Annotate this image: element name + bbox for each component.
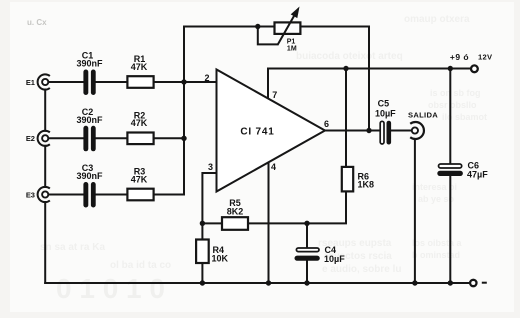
resistor R4	[196, 240, 209, 264]
svg-text:los oibsta a: los oibsta a	[412, 238, 463, 248]
svg-text:omaup otxera: omaup otxera	[404, 14, 470, 25]
wire E2 shell to E3 shell	[44, 146, 46, 187]
svg-text:+9 ó: +9 ó	[450, 52, 469, 62]
svg-text:390nF: 390nF	[76, 115, 103, 125]
wire SALIDA jack shell to ground rail	[414, 139, 416, 283]
positive supply terminal	[471, 65, 478, 72]
svg-text:390nF: 390nF	[76, 59, 103, 69]
wire ground rail	[45, 282, 470, 284]
svg-text:3: 3	[208, 162, 213, 172]
svg-text:E3: E3	[26, 190, 35, 199]
svg-text:47K: 47K	[131, 118, 148, 128]
wire R4 top lead	[201, 223, 203, 239]
svg-text:P1: P1	[287, 38, 296, 45]
wire feedback top rail to P1	[184, 26, 275, 28]
junction node B (R5/R6/C4)	[304, 221, 309, 226]
wire E3 shell down to ground rail	[44, 202, 46, 283]
wire C4 top lead	[306, 223, 308, 248]
wire E1 jack to C1	[49, 81, 83, 83]
wire supply rail branch down to C6	[449, 69, 451, 165]
wire R5 to node B	[249, 222, 307, 224]
capacitor C3	[83, 182, 95, 208]
wire C6 bottom lead to ground rail	[449, 176, 451, 283]
svg-text:ab ye so: ab ye so	[418, 194, 455, 204]
svg-text:47µF: 47µF	[467, 169, 488, 179]
wire C1 to R1	[96, 81, 127, 83]
wire P1 wiper loop	[258, 27, 278, 45]
wire R3 to summing node	[154, 194, 184, 196]
svg-text:2: 2	[204, 73, 209, 83]
wire R1 to summing node	[154, 81, 184, 83]
junction supply-R6	[343, 66, 348, 71]
svg-text:E2: E2	[26, 134, 35, 143]
wire E3 jack to C3	[49, 194, 83, 196]
svg-text:ilo sbamot: ilo sbamot	[442, 112, 487, 122]
potentiometer P1	[275, 7, 301, 46]
wire C5 to SALIDA jack	[391, 130, 411, 132]
svg-text:8K2: 8K2	[227, 207, 244, 217]
svg-text:sn sa at ra Ka: sn sa at ra Ka	[40, 242, 105, 253]
wire summing node vertical (inverting input bus)	[183, 27, 185, 195]
junction C6-ground	[448, 280, 453, 285]
junction supply-C6	[448, 66, 453, 71]
svg-text:1M: 1M	[287, 46, 297, 53]
svg-text:b ominstad: b ominstad	[412, 250, 460, 260]
svg-text:47K: 47K	[131, 62, 148, 72]
junction node A (pin3/R4/R5)	[200, 221, 205, 226]
wire E2 jack to C2	[49, 137, 83, 139]
capacitor C2	[83, 126, 95, 152]
connector E1 (input jack)	[38, 74, 50, 89]
wire P1 to right feedback riser	[300, 26, 369, 28]
resistor R6	[342, 167, 353, 192]
resistor R1	[127, 76, 153, 88]
connector E2 (input jack)	[38, 131, 50, 146]
svg-text:10µF: 10µF	[375, 109, 396, 119]
junction P1 wiper/left terminal	[255, 24, 260, 29]
wire pin 7 to supply rail	[267, 69, 269, 99]
capacitor C1	[83, 70, 95, 96]
svg-text:E1: E1	[26, 78, 35, 87]
connector E3 (input jack)	[38, 187, 50, 202]
label minus	[482, 282, 487, 284]
wire op-amp output pin 6 to C5	[325, 130, 380, 132]
wire feedback riser down to output	[368, 27, 370, 131]
wire pin 2 input	[184, 81, 217, 83]
junction C4-ground	[304, 280, 309, 285]
capacitor C5 (electrolytic output coupling)	[380, 121, 391, 145]
capacitor C4 (electrolytic)	[295, 248, 320, 261]
wire R2 to summing node	[154, 137, 184, 139]
svg-text:0 1 0 1 0: 0 1 0 1 0	[56, 273, 165, 304]
svg-text:47K: 47K	[131, 174, 148, 184]
svg-text:obsr obsllo: obsr obsllo	[428, 100, 477, 110]
negative supply terminal	[470, 280, 476, 286]
junction summing node pin2	[181, 79, 186, 84]
svg-text:10µF: 10µF	[324, 254, 345, 264]
junction summing node R2	[181, 136, 186, 141]
resistor R5	[222, 217, 248, 230]
wire C2 to R2	[96, 137, 127, 139]
wire C4 bottom lead to ground rail	[306, 261, 308, 284]
svg-text:C5: C5	[378, 98, 390, 108]
resistor R3	[127, 189, 153, 201]
wire node A to R5	[202, 222, 221, 224]
wire positive supply rail	[268, 68, 471, 70]
op-amp U1 CI 741	[217, 70, 326, 192]
capacitor C6 (electrolytic supply filter)	[437, 164, 463, 176]
svg-text:e audio, sobre lu: e audio, sobre lu	[322, 264, 401, 275]
svg-text:CI 741: CI 741	[240, 127, 274, 138]
junction SALIDA shell-ground	[412, 280, 417, 285]
wire R4 bottom lead to ground rail	[201, 264, 203, 283]
junction R4-ground	[200, 280, 205, 285]
svg-text:buiacoda oteixot arteq: buiacoda oteixot arteq	[296, 51, 403, 62]
svg-text:10K: 10K	[212, 254, 229, 264]
svg-text:1K8: 1K8	[358, 180, 375, 190]
svg-text:6: 6	[324, 119, 329, 129]
wire pin 3 input	[202, 173, 216, 223]
wire R6 bottom lead to node B	[307, 192, 346, 223]
svg-text:SALIDA: SALIDA	[408, 110, 438, 119]
wire pin 4 to ground rail	[268, 162, 270, 283]
svg-text:is on sb fog: is on sb fog	[430, 88, 481, 98]
svg-text:390nF: 390nF	[76, 171, 103, 181]
junction feedback-output	[366, 128, 371, 133]
connector SALIDA (output jack)	[410, 122, 424, 139]
wire R6 top lead from supply rail	[345, 69, 347, 167]
svg-text:ol ba id ta co: ol ba id ta co	[110, 260, 171, 271]
svg-text:12V: 12V	[478, 53, 493, 62]
resistor R2	[127, 133, 153, 145]
junction pin4-ground	[266, 280, 271, 285]
svg-text:u. Cx: u. Cx	[27, 18, 47, 27]
wire E1 shell to E2 shell	[44, 90, 46, 131]
svg-text:4: 4	[271, 162, 276, 172]
wire C3 to R3	[96, 194, 127, 196]
svg-text:7: 7	[272, 90, 277, 100]
